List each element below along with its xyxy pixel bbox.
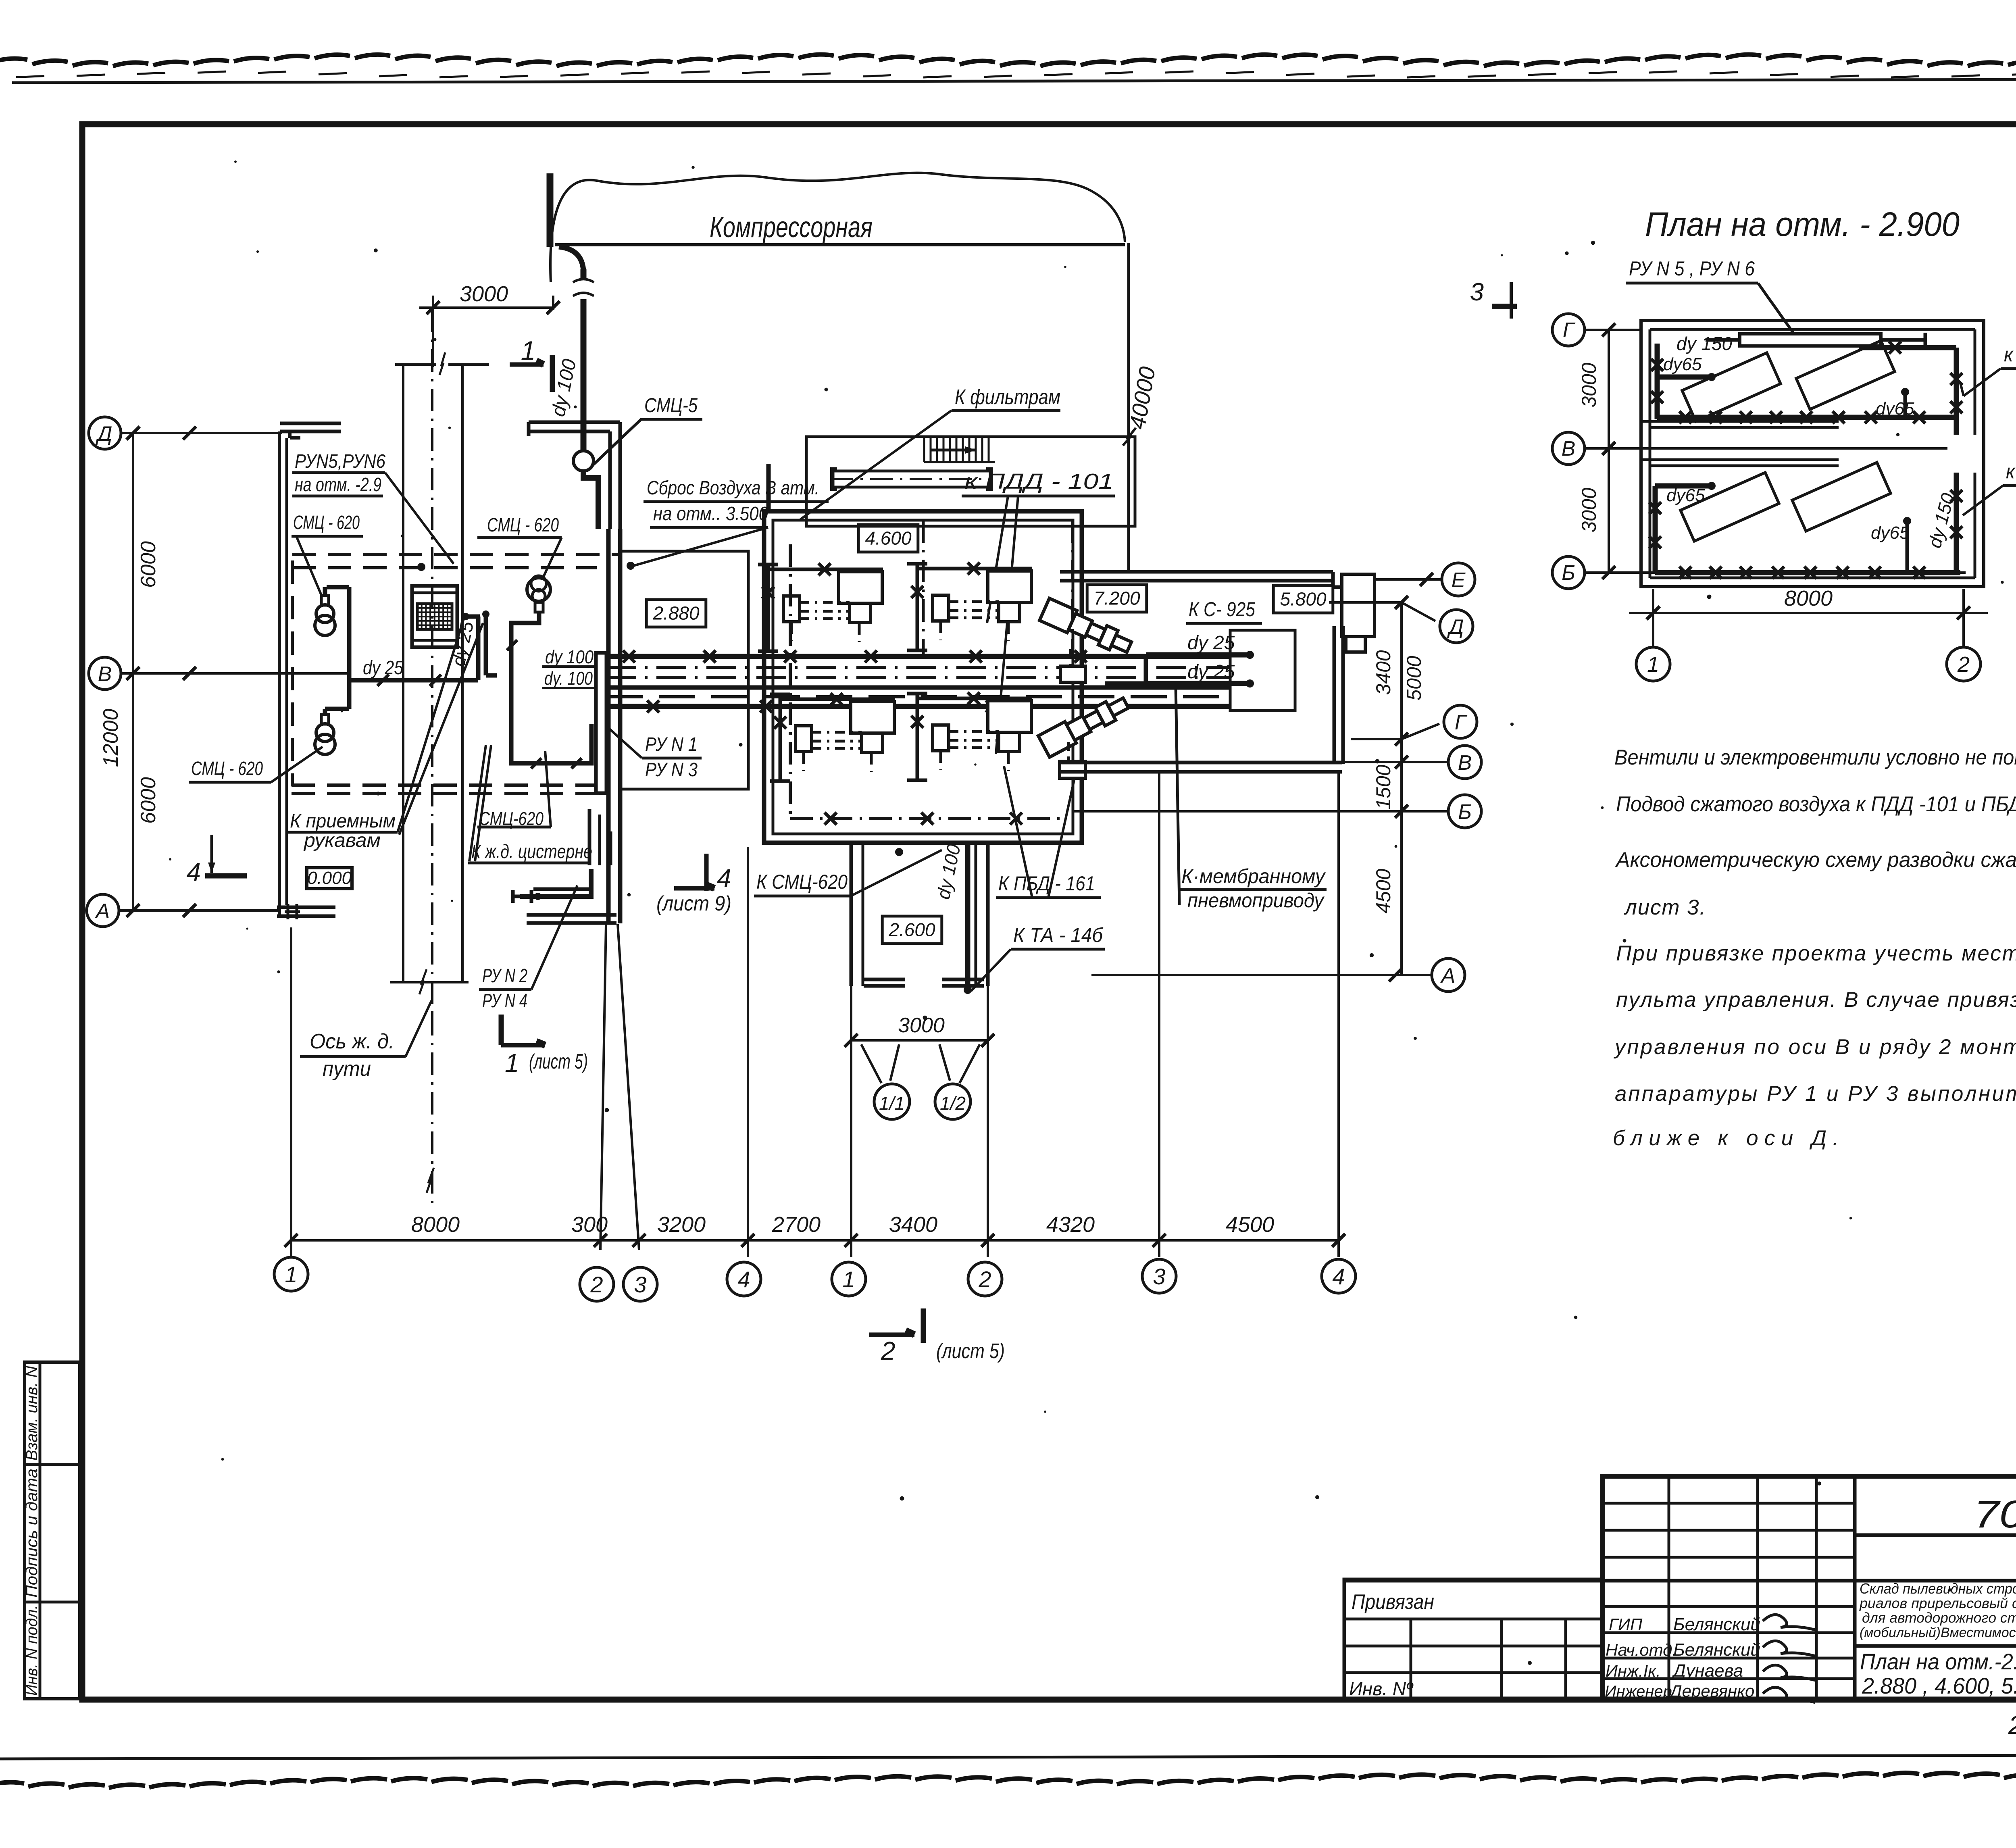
- svg-text:3000: 3000: [1578, 488, 1600, 532]
- компрессорная torn outline: [550, 173, 1125, 282]
- svg-text:Подпись и дата: Подпись и дата: [23, 1469, 41, 1598]
- grid extension 4 left: [747, 847, 749, 1257]
- section mark 1 lower left: [499, 1015, 504, 1045]
- dashed level outline bottom A: [292, 783, 607, 787]
- svg-text:8000: 8000: [411, 1213, 460, 1237]
- svg-text:К фильтрам: К фильтрам: [955, 385, 1060, 409]
- monorail beam: [833, 471, 990, 487]
- leader СМЦ-5: [594, 419, 641, 465]
- pipe bundle line 1: [606, 654, 1231, 659]
- svg-text:3: 3: [1470, 278, 1484, 306]
- svg-text:Сброс Воздуха В атм.: Сброс Воздуха В атм.: [647, 477, 819, 499]
- svg-text:1: 1: [1647, 652, 1659, 677]
- axis line Д right: [1329, 602, 1435, 621]
- pipe dy100 riser: [581, 299, 587, 451]
- dashed level outline top A: [292, 553, 620, 556]
- svg-text:управления по оси В и ря: управления по оси В и ряду 2 монтаж пнев…: [1614, 1035, 2016, 1059]
- svg-text:4: 4: [717, 864, 731, 893]
- svg-text:К С- 925: К С- 925: [1189, 598, 1255, 621]
- grid extension 1 mid: [850, 986, 852, 1257]
- svg-text:3400: 3400: [1372, 650, 1395, 695]
- svg-text:5000: 5000: [1403, 656, 1425, 700]
- axis circle В small plan: [1552, 432, 1585, 465]
- room 2.880 outline: [620, 551, 748, 789]
- axis line А right: [1091, 974, 1431, 976]
- svg-text:СМЦ - 620: СМЦ - 620: [293, 512, 360, 533]
- label 7.200 box: [1087, 585, 1147, 612]
- leader К приемным 2: [399, 623, 483, 835]
- svg-text:2: 2: [1957, 652, 1970, 677]
- leader К ПБД-161 b: [1048, 778, 1075, 898]
- axis line В: [121, 672, 349, 675]
- svg-text:К·мембранному: К·мембранному: [1181, 865, 1326, 888]
- pipe pump3 drain: [511, 612, 591, 763]
- equipment slab lower right: [1792, 463, 1891, 531]
- svg-text:на отм. -2.9: на отм. -2.9: [295, 474, 381, 496]
- corridor left wall: [850, 843, 853, 986]
- pipe upper room top run: [1859, 345, 1956, 350]
- pipe dy25 riser a: [476, 617, 481, 680]
- pipe stub pump2: [323, 709, 327, 715]
- label 2.600 box: [882, 916, 942, 944]
- СМЦ-620 pump 3: [527, 578, 550, 601]
- pipe dy100 riser upper: [581, 269, 587, 279]
- svg-text:А: А: [95, 900, 110, 923]
- small plan middle wall upper: [1641, 420, 1839, 423]
- pipe dy25 left loop top: [327, 585, 349, 590]
- svg-text:4: 4: [186, 858, 201, 887]
- valve at цистерна: [513, 895, 531, 898]
- funnel to 1/1: [861, 1044, 881, 1083]
- corridor right wall: [975, 843, 977, 986]
- svg-text:1: 1: [521, 335, 536, 365]
- svg-text:3000: 3000: [460, 282, 508, 306]
- leader К ТА-14б: [971, 949, 1011, 991]
- pipe lower room dy65 stub: [1655, 483, 1710, 489]
- axis line Б right: [1074, 810, 1448, 813]
- rail end terminator: [390, 981, 469, 983]
- dashed level outline west: [291, 560, 294, 786]
- svg-text:Взам. инв. N: Взам. инв. N: [23, 1366, 41, 1460]
- small plan right wall door gap: [1983, 435, 1985, 440]
- annex room top: [806, 437, 1135, 526]
- axis circle 1b bottom: [832, 1262, 866, 1296]
- sheet bottom rule: [0, 1755, 2016, 1759]
- компрессорная west wall: [547, 173, 554, 247]
- svg-text:Инж.Iк.: Инж.Iк.: [1606, 1661, 1661, 1680]
- axis circle 3b bottom: [1142, 1259, 1176, 1293]
- axis circle Б right: [1448, 795, 1481, 828]
- svg-text:Инв. Nº: Инв. Nº: [1349, 1678, 1414, 1699]
- pipe to membrane drive: [1176, 685, 1179, 905]
- axis circle А left: [87, 894, 119, 927]
- equipment slab upper right: [1796, 341, 1895, 409]
- svg-text:Склад пылевидных строительных: Склад пылевидных строительных мате: [1860, 1580, 2016, 1597]
- svg-text:План на отм. - 2.900: План на отм. - 2.900: [1645, 205, 1960, 243]
- axis line Е: [1376, 578, 1441, 581]
- svg-text:К СМЦ-620: К СМЦ-620: [756, 871, 848, 893]
- bottom wall piece near цистерна: [527, 913, 616, 917]
- svg-text:1/2: 1/2: [940, 1093, 966, 1114]
- label 5.800 box: [1273, 585, 1333, 613]
- leader к ПДД-101 b: [996, 496, 1018, 754]
- dim 3000 extension right: [552, 296, 554, 310]
- section mark 2 лист5: [869, 1333, 914, 1337]
- axis line В right: [1343, 761, 1448, 763]
- svg-text:СМЦ-5: СМЦ-5: [644, 394, 698, 417]
- К ж.д. цистерне piping: [520, 869, 591, 896]
- svg-text:Б: Б: [1562, 561, 1575, 585]
- leader к ТА-19А lower: [1963, 485, 2003, 515]
- title block outer: [1603, 1476, 2016, 1700]
- equipment slab lower left: [1681, 473, 1779, 541]
- svg-text:Г: Г: [1455, 711, 1468, 734]
- svg-text:dy 150: dy 150: [1677, 333, 1733, 354]
- svg-text:РУ N 4: РУ N 4: [482, 990, 527, 1012]
- label 0.000 box: [307, 868, 352, 889]
- svg-text:Г: Г: [1563, 319, 1576, 342]
- small plan building inner wall top: [1650, 328, 1975, 331]
- grid extension 3 right: [1158, 772, 1160, 1257]
- pipe dy65 stub upper: [1658, 375, 1710, 380]
- grid extension 4 right: [1337, 772, 1340, 1257]
- svg-text:1: 1: [285, 1262, 297, 1287]
- central building outer wall: [764, 511, 1082, 843]
- svg-text:В: В: [98, 663, 112, 686]
- axis circle Д left: [89, 417, 121, 449]
- axis line В small plan: [1585, 447, 1947, 450]
- leader к ПДД-101 a: [987, 496, 1008, 623]
- svg-text:dy65: dy65: [1876, 399, 1914, 419]
- pipe dy25 connector: [1144, 655, 1148, 683]
- corridor bottom wall left piece: [864, 978, 905, 981]
- pipe dy25 left loop riser: [347, 587, 352, 709]
- left building east wall band: [606, 529, 611, 923]
- svg-text:1500: 1500: [1372, 765, 1395, 809]
- axis circle 1/1: [874, 1084, 910, 1119]
- svg-text:Белянский: Белянский: [1673, 1615, 1760, 1634]
- right building ne block: [1342, 574, 1375, 637]
- svg-text:Аксонометрическую схему раз: Аксонометрическую схему разводки сжатого…: [1615, 848, 2016, 872]
- left stamp table: [25, 1362, 80, 1699]
- svg-text:708 - 57. 90 - ВС: 708 - 57. 90 - ВС: [1974, 1493, 2016, 1536]
- pipe dy100 below СМЦ-5: [583, 471, 598, 529]
- central building inner wall: [773, 520, 1073, 834]
- leader К ж.д. цистерне a: [469, 745, 486, 861]
- pipe right riser dy150 lower: [1954, 473, 1959, 573]
- svg-text:4: 4: [1332, 1264, 1345, 1289]
- small plan bottom dim extensions: [1652, 589, 1654, 647]
- svg-text:Ось ж. д.: Ось ж. д.: [310, 1030, 394, 1053]
- signature squiggles: [1763, 1615, 1815, 1630]
- РУ manifold front: [596, 653, 606, 793]
- svg-text:РУ N 1: РУ N 1: [645, 734, 698, 755]
- svg-text:8000: 8000: [1784, 586, 1833, 610]
- pipe right riser dy150 upper: [1954, 348, 1959, 435]
- pipe dy65 drop upper right: [1904, 393, 1907, 417]
- leader сброс воздуха: [631, 527, 768, 567]
- axis circle 1 small plan: [1636, 647, 1670, 681]
- small plan building outer wall: [1641, 321, 1984, 587]
- axis line Г small plan: [1585, 329, 1641, 331]
- axis circle 4b bottom: [1322, 1259, 1356, 1293]
- small plan left dim line: [1608, 330, 1610, 573]
- svg-text:к ТА - 19А: к ТА - 19А: [2006, 460, 2016, 483]
- label 4.600 box: [858, 525, 918, 552]
- svg-text:риалов прирельсовый силосного: риалов прирельсовый силосного типа: [1859, 1596, 2016, 1611]
- svg-text:Привязан: Привязан: [1352, 1590, 1434, 1614]
- pneumatic nozzle upper: [1039, 598, 1134, 658]
- leader СМЦ-620 topleft: [296, 536, 322, 596]
- nozzle drops lower: [1067, 742, 1070, 760]
- svg-text:2: 2: [590, 1272, 603, 1297]
- svg-text:Д: Д: [1447, 615, 1464, 639]
- СМЦ-5 circle: [573, 451, 594, 471]
- svg-text:Инв. N подл.: Инв. N подл.: [23, 1605, 41, 1696]
- svg-text:пульта управления. В случае: пульта управления. В случае привязки пул…: [1616, 988, 2016, 1012]
- right building parapet step: [1333, 572, 1342, 587]
- svg-text:5.800: 5.800: [1280, 589, 1327, 610]
- section mark 4 left: [210, 835, 213, 873]
- svg-text:пневмоприводу: пневмоприводу: [1187, 889, 1325, 912]
- ПДД unit cluster A: [766, 565, 770, 651]
- axis circle 4 bottom: [727, 1262, 761, 1296]
- svg-text:2.880: 2.880: [652, 603, 700, 624]
- wall below 2.880 room b: [610, 831, 612, 865]
- nozzle drops upper: [1069, 649, 1072, 665]
- svg-text:(мобильный)Вместимостью 0.5 ты: (мобильный)Вместимостью 0.5 тыс. т.: [1860, 1625, 2016, 1640]
- svg-text:2: 2: [978, 1267, 991, 1292]
- axis circle Б small plan: [1552, 556, 1585, 589]
- small plan building inner wall right upper: [1974, 329, 1976, 435]
- axis line А left: [119, 909, 278, 912]
- pipe dy25 left loop bottom: [325, 707, 349, 711]
- svg-text:План на отм.-2.900, 0.000,: План на отм.-2.900, 0.000,: [1860, 1649, 2016, 1674]
- axis circle 3 bottom: [623, 1267, 657, 1301]
- bottom dim line: [291, 1239, 1339, 1242]
- svg-text:(лист 5): (лист 5): [936, 1340, 1005, 1363]
- pipe dy25 right upper: [1146, 652, 1248, 658]
- svg-text:0.000: 0.000: [307, 868, 352, 888]
- svg-text:лист 3.: лист 3.: [1624, 896, 1706, 919]
- pipe bundle line 5 dashed: [606, 695, 1231, 698]
- svg-text:пути: пути: [323, 1057, 371, 1081]
- svg-text:СМЦ - 620: СМЦ - 620: [487, 515, 559, 536]
- svg-text:dy 25: dy 25: [1187, 632, 1235, 654]
- pneumatic nozzle lower: [1038, 692, 1131, 757]
- torn paper edge bottom: [0, 1782, 24, 1785]
- right building bottom wall: [1060, 761, 1342, 765]
- leader К ж.д. цистерне b: [475, 745, 491, 861]
- svg-text:2700: 2700: [772, 1213, 821, 1237]
- section mark 3 left: [1492, 304, 1517, 309]
- СМЦ-620 pump 1: [321, 596, 329, 605]
- pipe bundle line 3 dashdot: [606, 676, 1231, 679]
- wall bottom hatch: [287, 904, 289, 919]
- pump room box: [1230, 630, 1295, 710]
- wall below 2.880 room a: [588, 809, 591, 865]
- svg-text:В: В: [1458, 751, 1472, 775]
- svg-text:2.600: 2.600: [888, 919, 935, 940]
- title block doc number cell: [1855, 1533, 2016, 1537]
- svg-text:300: 300: [571, 1213, 608, 1237]
- rail axis dash-dot: [431, 310, 433, 1013]
- pipe bundle line 4: [606, 685, 1231, 690]
- wall bottom piece left building: [277, 906, 335, 909]
- svg-text:12000: 12000: [99, 709, 123, 767]
- pipe dy100 corridor: [965, 844, 971, 987]
- interior dashdot risers: [922, 520, 925, 656]
- svg-text:К ж.д. цистерне: К ж.д. цистерне: [471, 841, 592, 863]
- dim 3000 extension left: [432, 296, 434, 367]
- leader к ТА-19А upper: [1964, 369, 2001, 396]
- svg-text:РУN5,РУN6: РУN5,РУN6: [295, 451, 385, 472]
- wall corner vertical near СМЦ-5: [608, 431, 612, 529]
- small plan building inner wall left: [1649, 329, 1652, 578]
- leader РУ2: [531, 885, 577, 990]
- dim 3000 corridor: [851, 1039, 988, 1042]
- РУ manifold: [596, 653, 606, 793]
- stairs hatch: [923, 438, 925, 462]
- axis circle Е: [1442, 563, 1475, 596]
- svg-text:3000: 3000: [1578, 363, 1600, 407]
- svg-text:К ПБД - 161: К ПБД - 161: [998, 872, 1095, 895]
- axis circle 1/2: [935, 1084, 971, 1119]
- leader РУ№5 main plan: [385, 473, 454, 564]
- leader К ПБД-161 a: [1004, 766, 1032, 898]
- svg-text:к ТА- 19А: к ТА- 19А: [2004, 343, 2016, 366]
- small plan middle wall lower: [1641, 458, 1839, 461]
- leader К СМЦ-620: [851, 850, 942, 896]
- svg-text:4500: 4500: [1226, 1213, 1274, 1237]
- left building west wall: [278, 431, 281, 915]
- leader СМЦ-620 mid lower: [545, 751, 551, 827]
- svg-text:dy65: dy65: [1663, 354, 1702, 374]
- svg-text:аппаратуры РУ 1 и РУ 3 в: аппаратуры РУ 1 и РУ 3 выполнить по мест…: [1615, 1082, 2016, 1106]
- leader К фильтрам: [800, 410, 952, 519]
- svg-text:К приемным: К приемным: [290, 810, 396, 832]
- ПДД unit cluster B: [916, 564, 919, 650]
- axis circle Г right: [1444, 705, 1477, 738]
- funnel to 1/2: [960, 1044, 980, 1083]
- pipe break symbol dy100: [573, 279, 594, 282]
- pipe bundle line 6 thick: [606, 704, 1231, 709]
- компрессорная south wall: [555, 243, 1125, 246]
- РУ№5 РУ№6 unit rectangle: [1740, 334, 1881, 346]
- label 2.880 box: [646, 600, 706, 627]
- svg-text:РУ N 2: РУ N 2: [482, 965, 527, 987]
- ПДД unit cluster D: [916, 694, 919, 780]
- svg-text:3000: 3000: [898, 1014, 945, 1037]
- svg-text:Д: Д: [96, 422, 112, 446]
- interior dashdot loop bottom: [790, 817, 1064, 820]
- pipe lower room left riser: [1653, 486, 1658, 573]
- leader Ось жд: [406, 1001, 431, 1056]
- svg-text:6000: 6000: [137, 541, 160, 588]
- сброс воздуха pipe entry: [766, 464, 771, 511]
- axis circle 1 bottom: [274, 1257, 308, 1291]
- svg-text:ГИП: ГИП: [1609, 1615, 1643, 1634]
- pipe stub pump1: [323, 587, 327, 596]
- svg-text:3200: 3200: [657, 1213, 706, 1237]
- left lower table rows: [1344, 1618, 1603, 1621]
- svg-text:Деревянко: Деревянко: [1668, 1681, 1754, 1700]
- svg-text:dy 25: dy 25: [1187, 661, 1235, 683]
- svg-text:dy65: dy65: [1666, 485, 1705, 505]
- dashed level outline bottom B: [292, 792, 607, 795]
- svg-text:на отм.. 3.500: на отм.. 3.500: [653, 503, 768, 525]
- wall top right piece: [529, 421, 620, 424]
- pipe upper room left riser dy150: [1655, 344, 1660, 419]
- receiving hopper grid: [412, 586, 457, 647]
- small plan building inner wall bottom: [1650, 577, 1975, 579]
- svg-text:Компрессорная: Компрессорная: [710, 211, 873, 244]
- section mark 1 top: [510, 363, 544, 367]
- grid extension 2 mid: [987, 986, 989, 1257]
- right building top wall: [1060, 570, 1333, 574]
- axis circle Г small plan: [1552, 314, 1585, 346]
- dim line 3000 top: [419, 306, 553, 309]
- axis circle 2 bottom: [580, 1267, 614, 1301]
- left vertical dim line: [132, 433, 134, 910]
- РУ unit stem line: [1881, 338, 1925, 342]
- svg-text:1: 1: [505, 1048, 519, 1077]
- pipe dy100 elbow from компрессорная: [559, 247, 583, 271]
- axis line Б small plan: [1585, 571, 1966, 574]
- svg-text:3: 3: [634, 1272, 646, 1297]
- svg-text:6000: 6000: [137, 777, 160, 824]
- small plan building inner wall right lower: [1974, 473, 1976, 578]
- svg-text:2: 2: [881, 1336, 896, 1365]
- svg-text:Белянский: Белянский: [1673, 1640, 1760, 1660]
- leader РУ№5 small plan: [1758, 283, 1793, 333]
- section mark 4 лист 9: [674, 886, 714, 891]
- leader СМЦ-620 topmid: [544, 538, 562, 577]
- svg-text:3400: 3400: [889, 1213, 937, 1237]
- svg-text:К ТА - 14б: К ТА - 14б: [1013, 924, 1104, 946]
- leader РУ№1: [602, 722, 642, 758]
- svg-text:Е: Е: [1452, 569, 1466, 592]
- svg-text:СМЦ - 620: СМЦ - 620: [191, 758, 263, 779]
- svg-text:7.200: 7.200: [1093, 588, 1140, 609]
- svg-text:РУ N 3: РУ N 3: [645, 759, 698, 781]
- small plan bottom dim line: [1629, 612, 1988, 614]
- dim line 40000 right: [1127, 243, 1130, 571]
- svg-text:dy 100: dy 100: [545, 646, 594, 667]
- right vertical dim line: [1400, 602, 1403, 975]
- svg-text:для автодорожного строительств: для автодорожного строительства: [1862, 1610, 2016, 1626]
- svg-text:dy65: dy65: [1871, 523, 1910, 543]
- pipe dy25 riser b: [484, 614, 488, 675]
- axis circle В left: [89, 657, 121, 690]
- right building east wall: [1333, 626, 1336, 764]
- road edge line with break: [395, 363, 436, 366]
- pipe lower dy65 drop: [1906, 522, 1909, 573]
- svg-text:(лист 5): (лист 5): [529, 1050, 588, 1073]
- leader dot on dashed line 2: [627, 562, 635, 570]
- rail right: [461, 365, 464, 982]
- СМЦ-620 pump 2: [321, 715, 329, 724]
- svg-text:4320: 4320: [1046, 1213, 1095, 1237]
- axis circle 2b bottom: [968, 1262, 1002, 1296]
- interior dashdot loop left: [789, 544, 792, 819]
- svg-text:В: В: [1562, 437, 1576, 460]
- equipment slab upper left: [1682, 353, 1781, 421]
- rail left: [402, 365, 404, 982]
- svg-text:РУ N 5 , РУ N 6: РУ N 5 , РУ N 6: [1629, 257, 1755, 280]
- svg-text:1/1: 1/1: [879, 1093, 905, 1114]
- rail axis dash-dot lower: [431, 1013, 433, 1204]
